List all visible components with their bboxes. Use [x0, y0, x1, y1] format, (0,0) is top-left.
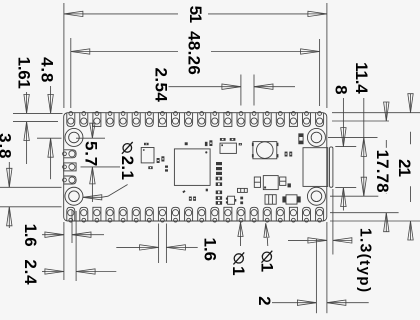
USB connector body — [303, 148, 328, 187]
leader 8 lower — [342, 207, 344, 211]
extension line, board right edge (for 51 dim) — [326, 3, 328, 108]
crystal Y1 — [220, 143, 236, 153]
leader 11.4 mid — [363, 157, 365, 178]
USB connector overhang — [330, 147, 333, 187]
capacitor right of crystal — [239, 143, 242, 145]
arrowhead 51 right — [308, 11, 327, 16]
arrowhead 1.3 left — [308, 238, 327, 243]
inductor L1 area rect left — [254, 177, 260, 187]
dimension line 1.6 pad right tail — [185, 246, 197, 248]
dimension line 51 right part — [208, 13, 308, 15]
svg-text:8: 8 — [331, 85, 350, 95]
capacitor below flash — [148, 166, 152, 169]
decoupling capacitor column right of RP2040 — [216, 162, 222, 205]
capacitor top right of RP2040 2 — [209, 140, 212, 146]
svg-text:(typ): (typ) — [356, 254, 373, 294]
resistor pair tiny 2 — [240, 201, 243, 204]
extension line middle debug pad (for 5.7) — [81, 166, 121, 168]
arrowhead 5.7 upper — [90, 123, 95, 138]
component with side tabs bottom right — [286, 195, 297, 204]
leader 3.8 upper — [8, 162, 10, 168]
arrowhead 2 left — [297, 300, 316, 305]
arrowhead 2 right — [327, 300, 346, 305]
leader dia2.1 — [102, 185, 128, 198]
resistor pair above crystal 2 — [230, 138, 236, 141]
svg-text:51: 51 — [186, 6, 205, 23]
leader 1.61 upper — [26, 92, 28, 95]
svg-text:2.1: 2.1 — [118, 156, 137, 181]
extension line top pin row right (for 17.78) — [332, 120, 389, 122]
arrowhead 1.6 right — [72, 232, 91, 237]
leader dia1 first — [240, 236, 242, 246]
extension line pad right edge (for 1.6 pad) — [165, 224, 167, 264]
svg-text:4.8: 4.8 — [38, 57, 57, 83]
dimension line 2.54 — [169, 86, 222, 88]
svg-text:21: 21 — [395, 159, 414, 177]
mounting hole bottom-right — [307, 187, 325, 205]
extension line top pin row left (for 1.61) — [13, 121, 58, 123]
extension line board right edge down (for 2/1.3) — [326, 222, 328, 313]
dimension text dia1 second symbol — [262, 252, 271, 261]
arrowhead 1.6 pad right — [166, 245, 185, 250]
extension line top hole row right (for 11.4) — [328, 136, 378, 138]
leader 4.8 lower — [50, 157, 52, 179]
svg-text:2: 2 — [255, 296, 274, 306]
debug pads (SWD, 3 castellated pads on left edge) — [63, 150, 77, 184]
flash chip U2 — [141, 148, 154, 163]
dimension line 2.4 right tail — [95, 271, 116, 273]
extension line bottom pin row right (for 17.78) — [330, 212, 399, 214]
capacitor pair right of button 1 — [285, 152, 288, 157]
arrowhead 8 lower — [341, 188, 346, 207]
arrowhead 3.8 upper — [7, 168, 12, 187]
dimension line 48.26 left part — [90, 51, 178, 53]
capacitor right of regulator — [280, 177, 286, 185]
extension line usb bottom (for 8) — [335, 187, 356, 189]
capacitor pair below RP2040 2 — [193, 197, 196, 201]
RP2040 chip U1 — [174, 149, 210, 186]
arrowhead 8 upper — [341, 128, 346, 147]
arrowhead 1.6 left — [45, 232, 64, 237]
leader 11.4 upper — [363, 98, 365, 137]
capacitor top right of RP2040 1 — [205, 142, 208, 146]
arrowhead 48.26 right — [301, 49, 320, 54]
svg-text:1: 1 — [229, 266, 248, 276]
extension line bottom hole row right (for 11.4) — [330, 195, 378, 197]
mounting hole top-right — [307, 128, 325, 146]
arrowhead 17.78 lower — [384, 213, 389, 232]
leader 21 upper — [410, 132, 412, 145]
extension line, first pin center (for 48.26) — [70, 38, 72, 108]
small cap below RP2040 right — [206, 189, 208, 192]
leader 21 lower — [410, 186, 412, 202]
dimension line 48.26 right part — [211, 51, 301, 53]
extension line, board left edge (for 51 dim) — [63, 3, 65, 108]
dimension line 51 left part — [83, 13, 178, 15]
resistor pair small 1 — [165, 166, 168, 168]
svg-text:17.78: 17.78 — [373, 150, 392, 193]
arrowhead 2.54 right — [254, 84, 273, 89]
svg-text:11.4: 11.4 — [352, 62, 371, 94]
svg-text:5.7: 5.7 — [82, 141, 101, 167]
extension line usb tip down (for 1.3) — [332, 189, 334, 255]
arrowhead 1.61 upper — [24, 94, 29, 113]
leader 1.61 lower — [26, 141, 28, 164]
extension line debug pad bottom (for 3.8) — [0, 186, 62, 188]
dimension line 1.3 lead — [288, 239, 307, 241]
dimension line 1.6 pad left lead — [116, 246, 140, 248]
transistor Q1 bottom left — [228, 196, 235, 204]
arrowhead 4.8 upper — [48, 94, 53, 113]
small cap below right of regulator — [288, 183, 291, 187]
extension line board left edge down (for 1.6/2.4) — [63, 222, 65, 280]
arrowhead 17.78 upper — [384, 102, 389, 121]
leader 3.8 lower — [8, 226, 10, 228]
svg-text:2.54: 2.54 — [151, 68, 170, 103]
extension line board top edge right (for 21) — [332, 112, 420, 114]
extension line debug pad end down (for 2.4) — [75, 211, 77, 281]
regulator U3 — [263, 176, 278, 190]
arrowhead 1.61 lower — [24, 122, 29, 141]
extension line hole center right down (for 2) — [315, 239, 317, 314]
capacitor pair right of button 2 — [289, 152, 292, 157]
board outline — [64, 113, 327, 221]
extension line usb top (for 8) — [335, 146, 356, 148]
extension line pad left edge (for 1.6 pad) — [158, 224, 160, 264]
extension line hole center row left (for 4.8) — [37, 137, 62, 139]
resistor pair above crystal 1 — [220, 138, 226, 141]
small mark below RP2040 — [182, 190, 185, 193]
extension line, last pin center (for 48.26) — [319, 39, 321, 106]
arrowhead dia1 second — [264, 223, 269, 237]
svg-text:1.61: 1.61 — [15, 57, 34, 89]
component 3pad bottom middle — [265, 195, 276, 205]
capacitor pair below RP2040 1 — [189, 197, 192, 201]
extension line pin15 (for 2.54) — [253, 75, 255, 106]
arrowhead 11.4 lower — [361, 177, 366, 196]
arrowhead dia1 first — [238, 223, 243, 237]
arrowhead dia2.1 — [83, 195, 102, 200]
dimension line 2 right tail — [346, 302, 369, 304]
dimension line 1.6 left lead — [42, 234, 46, 236]
arrowhead 2.4 left — [45, 269, 64, 274]
resistor horizontal small — [238, 188, 248, 192]
arrowhead 21 upper — [408, 94, 413, 113]
leader 5.7 lower — [91, 184, 93, 202]
extension line hole center row inside (for 5.7) — [76, 137, 105, 139]
dimension line 2.54 right tail — [273, 86, 295, 88]
capacitor pair right of flash 1 — [157, 158, 160, 163]
svg-text:1: 1 — [257, 263, 276, 273]
mounting hole top-left — [65, 128, 83, 146]
dimension text dia 2.1 symbol — [123, 144, 132, 153]
extension line board top edge left (for 1.61/4.8) — [13, 112, 63, 114]
svg-text:1.6: 1.6 — [201, 237, 220, 261]
extension line board bottom edge right (for 21) — [330, 220, 420, 222]
leader 17.78 lower — [385, 192, 387, 194]
svg-text:3.8: 3.8 — [0, 133, 15, 159]
arrowhead 11.4 upper — [361, 137, 366, 156]
svg-text:2.4: 2.4 — [21, 259, 40, 285]
svg-text:48.26: 48.26 — [185, 31, 204, 75]
extension line bottom pad top (for 3.8) — [0, 206, 62, 208]
svg-text:1.6: 1.6 — [21, 224, 40, 247]
arrowhead 5.7 lower — [90, 167, 95, 184]
dimension line 1.6 right tail — [91, 234, 104, 236]
arrowhead 1.3 right — [333, 238, 352, 243]
leader dia1 second — [266, 238, 269, 246]
arrowhead 3.8 lower — [7, 207, 12, 226]
capacitor near top-right hole — [299, 134, 303, 144]
dimension line 2.4 left lead — [42, 271, 46, 273]
svg-text:1.3: 1.3 — [357, 228, 374, 254]
capacitor above RP2040 — [185, 142, 188, 145]
mounting hole bottom-left — [65, 187, 83, 205]
arrowhead 2.4 right — [76, 269, 95, 274]
extension line pin14 (for 2.54) — [240, 75, 242, 106]
arrowhead 4.8 lower — [48, 138, 53, 157]
bottom pin pads row (20 castellated pads) — [67, 207, 324, 222]
arrowhead 21 lower — [408, 221, 413, 240]
leader 17.78 upper — [385, 140, 387, 148]
arrowhead 48.26 left — [71, 49, 90, 54]
leader 4.8 upper — [50, 86, 52, 95]
top pin pads row (20 castellated pads) — [67, 112, 324, 127]
capacitor near flash top — [144, 143, 149, 145]
arrowhead 2.54 left — [222, 84, 241, 89]
arrowhead 51 left — [64, 11, 83, 16]
BOOTSEL button housing — [253, 142, 277, 159]
extension line debug hole center down (for 1.6) — [71, 210, 73, 243]
resistor pair tiny 1 — [240, 197, 243, 200]
dimension text dia1 first symbol — [234, 254, 243, 263]
arrowhead 1.6 pad left — [140, 245, 159, 250]
dimension line 2 lead — [272, 302, 298, 304]
resistor pair small 2 — [165, 169, 168, 171]
leader 8 upper — [342, 98, 344, 128]
capacitor pair right of flash 2 — [161, 156, 164, 161]
